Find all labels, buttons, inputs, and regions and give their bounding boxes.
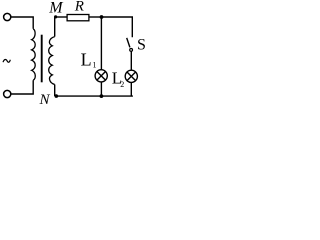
resistor R	[67, 15, 89, 21]
wire bottom-left to primary	[11, 80, 33, 94]
wire top-left to primary	[11, 17, 33, 29]
wire secondary bottom to node N	[54, 85, 56, 97]
node M dot	[54, 15, 57, 18]
wire junction to lamp L1	[100, 17, 102, 70]
wire lamp L1 to bottom wire	[100, 82, 102, 96]
junction dot top	[100, 15, 104, 19]
node N dot	[55, 94, 59, 98]
transformer secondary coil	[49, 37, 55, 85]
svg-text:S: S	[137, 36, 146, 53]
terminal bottom-left	[4, 90, 11, 97]
wire node M to resistor	[56, 16, 67, 18]
svg-text:N: N	[39, 92, 51, 107]
svg-text:1: 1	[93, 60, 97, 69]
junction dot bottom L1	[100, 94, 104, 98]
wire secondary top to node M	[54, 17, 56, 37]
wire junction to top-right corner	[102, 17, 133, 37]
wire lamp L2 to bottom wire	[130, 82, 132, 96]
wire switch to lamp L2	[130, 51, 132, 70]
svg-text:M: M	[48, 0, 64, 17]
wire resistor to junction	[90, 16, 102, 18]
AC source symbol ~	[3, 59, 10, 62]
transformer primary coil	[32, 29, 36, 80]
bottom wire	[55, 95, 133, 97]
terminal top-left	[4, 13, 11, 20]
switch S lever	[127, 38, 130, 48]
svg-text:2: 2	[120, 80, 124, 89]
svg-text:L: L	[81, 49, 92, 69]
lamp L2	[125, 70, 137, 82]
switch S contact circle	[130, 49, 133, 52]
svg-text:R: R	[74, 0, 84, 14]
lamp L1	[95, 70, 107, 82]
transformer core	[41, 35, 43, 83]
